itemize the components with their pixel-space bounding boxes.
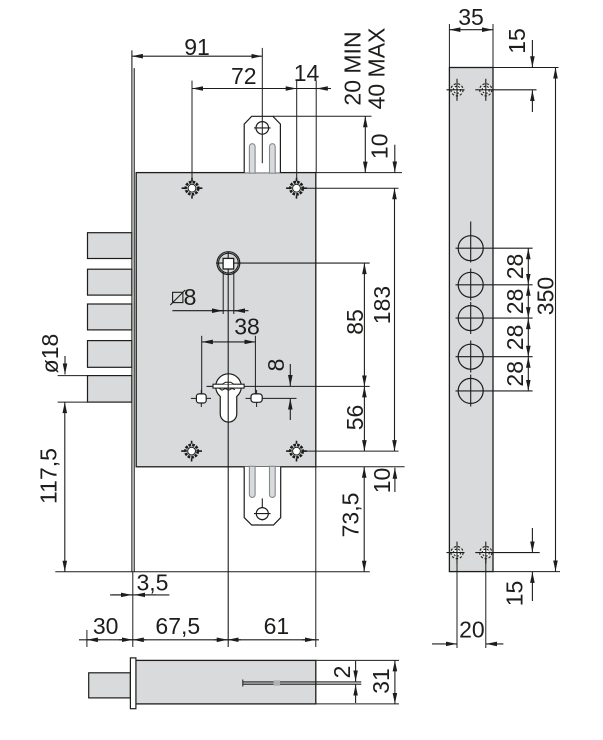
svg-text:20: 20 — [459, 617, 485, 643]
svg-text:56: 56 — [342, 405, 368, 431]
svg-text:10: 10 — [369, 468, 395, 494]
svg-text:28: 28 — [502, 361, 528, 387]
svg-text:38: 38 — [234, 314, 260, 340]
svg-text:ø18: ø18 — [37, 334, 63, 374]
svg-text:35: 35 — [458, 4, 484, 30]
svg-text:28: 28 — [502, 289, 528, 315]
svg-text:350: 350 — [533, 277, 559, 315]
svg-text:8: 8 — [184, 284, 197, 310]
svg-text:28: 28 — [502, 325, 528, 351]
svg-text:61: 61 — [264, 613, 290, 639]
svg-text:72: 72 — [231, 63, 257, 89]
svg-text:85: 85 — [342, 309, 368, 335]
svg-text:14: 14 — [294, 60, 320, 86]
svg-text:183: 183 — [369, 286, 395, 324]
svg-text:3,5: 3,5 — [137, 570, 169, 596]
svg-text:20 MIN: 20 MIN — [340, 31, 366, 105]
svg-text:31: 31 — [368, 668, 394, 694]
svg-text:28: 28 — [502, 254, 528, 280]
svg-text:10: 10 — [367, 134, 393, 160]
svg-text:8: 8 — [263, 359, 289, 372]
svg-text:15: 15 — [504, 28, 530, 54]
svg-text:117,5: 117,5 — [36, 448, 62, 504]
svg-text:15: 15 — [502, 581, 528, 607]
svg-text:73,5: 73,5 — [338, 493, 364, 538]
svg-text:40 MAX: 40 MAX — [364, 28, 390, 110]
svg-text:2: 2 — [329, 666, 355, 679]
svg-text:30: 30 — [93, 613, 119, 639]
svg-text:67,5: 67,5 — [155, 613, 200, 639]
svg-text:91: 91 — [184, 34, 210, 60]
